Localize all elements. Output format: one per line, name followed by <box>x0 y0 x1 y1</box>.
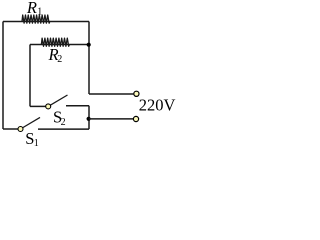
svg-text:1: 1 <box>34 138 39 149</box>
svg-text:2: 2 <box>61 117 66 128</box>
wire: R2 row left lead with corner <box>30 44 89 46</box>
wire: S2 right lead to S-join vertical <box>66 105 89 107</box>
svg-text:2: 2 <box>57 54 62 65</box>
node: junction dot of R2 row on right bus <box>87 43 91 47</box>
wire: S2 left lead <box>30 105 46 107</box>
node: junction dot to lower supply terminal <box>87 117 91 121</box>
wire: right bus vertical from top wire down to upper terminal wire <box>88 22 90 95</box>
wire: S1 left lead <box>3 128 18 130</box>
switch S2 pivot circle <box>46 104 51 109</box>
wire: vertical from R2 left corner down to S2 row <box>29 45 31 107</box>
resistor R2 <box>41 38 69 46</box>
resistor R1 <box>22 15 50 23</box>
switch S1 blade <box>21 117 41 129</box>
wire: lower terminal horizontal <box>89 118 133 120</box>
wire: S1 right lead to S-join vertical <box>38 128 89 130</box>
switch S2 blade <box>48 95 67 106</box>
terminal: upper 220V circle <box>134 91 139 96</box>
terminal: lower 220V circle <box>133 116 138 121</box>
wire: left vertical from top-left corner down to S1 row <box>2 22 4 130</box>
svg-text:1: 1 <box>37 7 42 18</box>
svg-text:R: R <box>26 0 37 17</box>
wire: top horizontal (left lead to R1) <box>3 21 89 23</box>
switch S1 pivot circle <box>18 127 23 132</box>
wire: S-join right vertical (S2 down / S1 up) <box>88 106 90 129</box>
wire: upper terminal horizontal <box>89 93 133 95</box>
svg-text:220V: 220V <box>139 96 176 115</box>
